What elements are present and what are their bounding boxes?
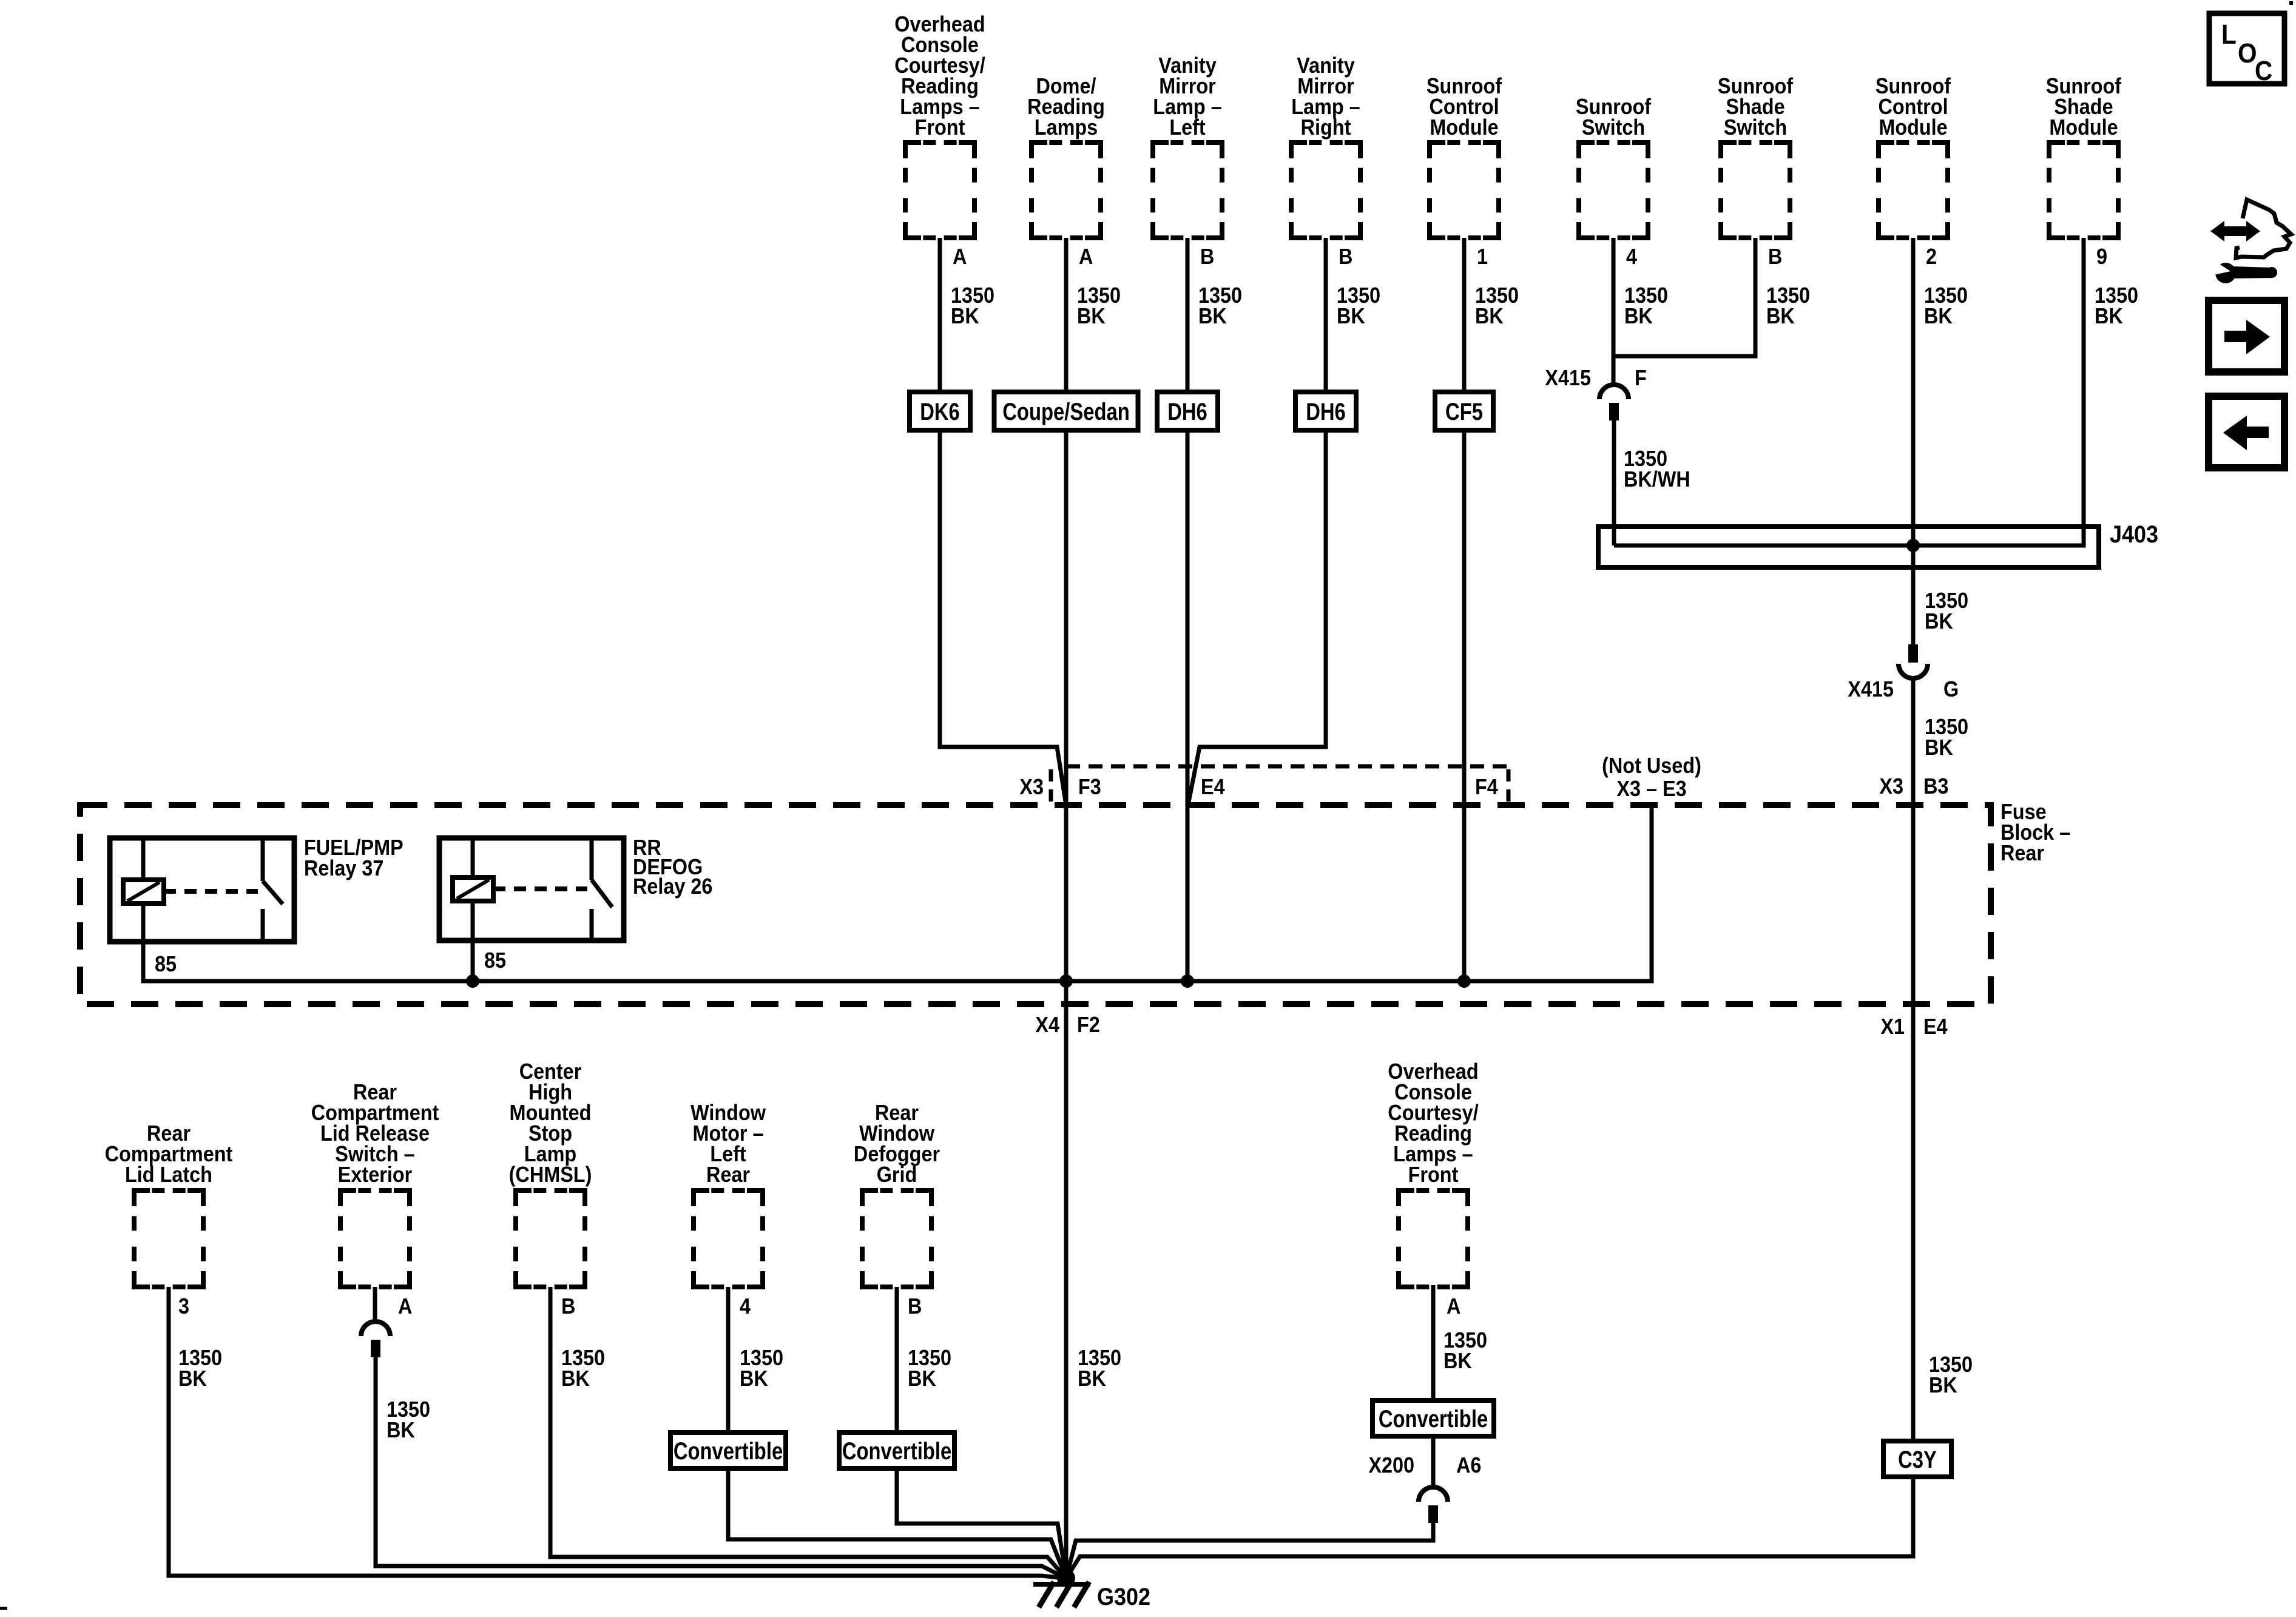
svg-text:BK: BK: [1198, 304, 1227, 328]
svg-text:Lamps: Lamps: [1035, 115, 1098, 140]
svg-text:CF5: CF5: [1445, 398, 1483, 425]
svg-text:BK: BK: [387, 1418, 415, 1442]
svg-text:L: L: [2221, 19, 2237, 50]
svg-text:Coupe/Sedan: Coupe/Sedan: [1002, 398, 1129, 425]
svg-text:DK6: DK6: [920, 398, 960, 425]
svg-text:DH6: DH6: [1306, 398, 1346, 425]
svg-text:Module: Module: [1430, 115, 1498, 140]
svg-text:BK: BK: [1337, 304, 1365, 328]
svg-text:E4: E4: [1923, 1014, 1948, 1039]
svg-text:C3Y: C3Y: [1898, 1446, 1937, 1473]
svg-text:BK: BK: [1078, 1366, 1106, 1391]
svg-text:B: B: [1768, 245, 1782, 269]
svg-text:DH6: DH6: [1167, 398, 1207, 425]
svg-text:BK: BK: [1925, 735, 1953, 760]
svg-text:F: F: [1635, 366, 1647, 390]
svg-text:Front: Front: [1408, 1163, 1459, 1187]
svg-text:A6: A6: [1456, 1453, 1481, 1477]
svg-text:Relay 26: Relay 26: [633, 874, 712, 899]
svg-text:X3: X3: [1019, 775, 1044, 799]
svg-text:C: C: [2255, 56, 2272, 86]
svg-text:Convertible: Convertible: [842, 1437, 951, 1465]
svg-text:A: A: [1447, 1294, 1460, 1318]
svg-text:Rear: Rear: [2001, 841, 2044, 865]
svg-text:F2: F2: [1077, 1013, 1100, 1037]
svg-text:A: A: [1079, 245, 1093, 269]
svg-text:BK: BK: [561, 1366, 590, 1391]
svg-text:85: 85: [155, 952, 177, 976]
svg-text:B: B: [561, 1294, 575, 1318]
svg-text:X415: X415: [1848, 677, 1894, 701]
svg-text:Right: Right: [1301, 115, 1351, 140]
svg-text:BK/WH: BK/WH: [1624, 467, 1690, 491]
svg-text:X4: X4: [1035, 1013, 1059, 1037]
svg-text:F4: F4: [1475, 775, 1498, 799]
svg-text:85: 85: [484, 948, 506, 973]
svg-text:O: O: [2238, 38, 2257, 69]
svg-text:(Not Used): (Not Used): [1602, 754, 1701, 778]
svg-text:BK: BK: [951, 304, 979, 328]
svg-text:Exterior: Exterior: [338, 1163, 412, 1187]
svg-text:(CHMSL): (CHMSL): [509, 1163, 592, 1187]
svg-text:BK: BK: [1924, 304, 1953, 328]
svg-text:Switch: Switch: [1724, 115, 1787, 140]
svg-text:Left: Left: [1169, 115, 1205, 140]
svg-text:Lid Latch: Lid Latch: [125, 1163, 212, 1187]
svg-text:9: 9: [2096, 245, 2107, 269]
svg-text:BK: BK: [740, 1366, 768, 1391]
svg-text:2: 2: [1926, 245, 1937, 269]
svg-text:BK: BK: [1929, 1373, 1957, 1397]
svg-text:B3: B3: [1923, 774, 1948, 798]
svg-text:X1: X1: [1880, 1014, 1905, 1039]
svg-text:BK: BK: [908, 1366, 936, 1391]
svg-text:BK: BK: [2095, 304, 2123, 328]
svg-text:BK: BK: [1475, 304, 1504, 328]
svg-text:X415: X415: [1545, 366, 1591, 390]
svg-text:G302: G302: [1097, 1584, 1150, 1610]
svg-text:F3: F3: [1078, 775, 1101, 799]
svg-text:Switch: Switch: [1582, 115, 1645, 140]
svg-text:Relay 37: Relay 37: [304, 856, 383, 880]
svg-text:B: B: [1200, 245, 1214, 269]
svg-text:E4: E4: [1201, 775, 1225, 799]
svg-text:BK: BK: [1077, 304, 1106, 328]
svg-text:X200: X200: [1368, 1453, 1414, 1477]
svg-text:1: 1: [1477, 245, 1488, 269]
svg-text:Module: Module: [2049, 115, 2118, 140]
svg-text:X3: X3: [1879, 774, 1903, 798]
svg-text:B: B: [908, 1294, 922, 1318]
svg-text:A: A: [953, 245, 967, 269]
svg-text:4: 4: [1626, 245, 1637, 269]
svg-text:J403: J403: [2110, 521, 2158, 548]
svg-text:BK: BK: [178, 1366, 207, 1391]
svg-text:3: 3: [178, 1294, 189, 1318]
svg-text:BK: BK: [1443, 1349, 1472, 1373]
svg-text:Module: Module: [1879, 115, 1947, 140]
svg-text:4: 4: [740, 1294, 751, 1318]
svg-text:Rear: Rear: [706, 1163, 750, 1187]
svg-text:B: B: [1339, 245, 1352, 269]
svg-text:Convertible: Convertible: [674, 1437, 783, 1465]
svg-text:A: A: [398, 1294, 412, 1318]
svg-text:Convertible: Convertible: [1379, 1405, 1488, 1433]
svg-text:X3 – E3: X3 – E3: [1616, 777, 1686, 801]
svg-text:G: G: [1943, 677, 1959, 701]
svg-text:Grid: Grid: [877, 1163, 917, 1187]
svg-text:Front: Front: [915, 115, 965, 140]
svg-text:BK: BK: [1624, 304, 1653, 328]
svg-text:BK: BK: [1925, 609, 1953, 633]
svg-text:BK: BK: [1766, 304, 1795, 328]
